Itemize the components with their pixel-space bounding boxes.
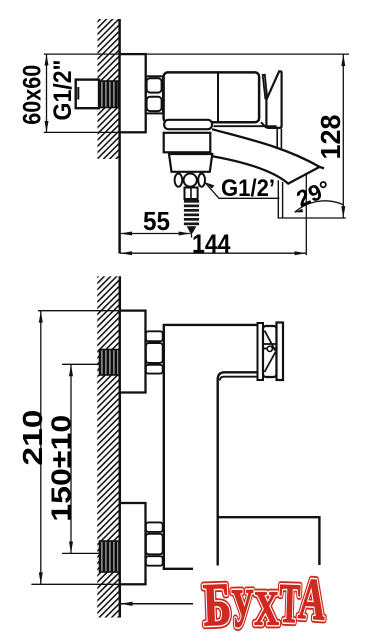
wall face line [118, 19, 121, 254]
svg-text:210: 210 [17, 410, 48, 466]
extension line top (y=54.1) [44, 53, 349, 55]
svg-text:У: У [231, 577, 255, 638]
threaded section upper inlet (plan) [100, 350, 120, 376]
wall (hatched) [97, 276, 120, 617]
svg-text:G1/2": G1/2" [49, 60, 77, 121]
watermark [202, 565, 328, 639]
barbed hose fitting [184, 200, 199, 233]
hex nuts (plan) [146, 331, 163, 565]
spout drop extension lines [277, 180, 279, 218]
handle tab [263, 75, 267, 99]
svg-text:Х: Х [254, 581, 279, 636]
escutcheon plate upper (plan) [120, 311, 146, 393]
shower outlet box [164, 133, 211, 153]
body (plan): wide box + leg [164, 325, 259, 569]
dim 210 [31, 311, 119, 585]
svg-text:А: А [297, 565, 329, 633]
handle (plan) [258, 323, 284, 381]
body step to handle [261, 122, 266, 128]
handle (side) [266, 71, 281, 128]
dim 144 [120, 251, 306, 255]
svg-text:55: 55 [143, 206, 170, 236]
svg-text:150±10: 150±10 [46, 415, 77, 522]
dim 55 [120, 227, 191, 238]
thread tick [77, 87, 79, 100]
svg-text:Б: Б [202, 571, 232, 639]
watermark backdrop [193, 566, 333, 640]
hose nut (side, round) [175, 174, 205, 187]
escutcheon plate lower (plan) [120, 503, 146, 584]
dim 150+-10 [62, 364, 100, 553]
threaded section in wall [99, 81, 119, 108]
faucet body (side) [164, 72, 260, 122]
flange under body [164, 120, 212, 129]
G1/2' leader [205, 182, 280, 198]
spout (side) [210, 129, 320, 183]
svg-text:60x60: 60x60 [19, 65, 47, 125]
29 deg annotation [295, 201, 344, 213]
vertical from spout tip [305, 175, 307, 255]
dim 128 [278, 54, 346, 218]
wall face line [119, 276, 122, 617]
svg-text:144: 144 [192, 229, 231, 259]
body divider [217, 74, 219, 122]
wall leader arrow [121, 602, 199, 606]
hex nut (side view) [146, 76, 163, 113]
supply pipe stub [76, 80, 99, 109]
svg-text:G1/2’: G1/2’ [221, 175, 275, 202]
dim 60x60 [45, 54, 49, 132]
svg-text:128: 128 [315, 115, 346, 160]
inner lip line [220, 377, 259, 381]
escutcheon plate 60x60 (side) [120, 54, 146, 132]
wall (hatched) [98, 19, 120, 159]
spout end box (plan) [218, 517, 320, 565]
collar trapezoid [169, 154, 212, 172]
threaded section lower inlet (plan) [100, 541, 120, 572]
hose nipple [185, 188, 198, 200]
handle support columns [276, 129, 278, 147]
body casting lower line [214, 125, 277, 127]
extension line bottom (y=132.4) [44, 131, 120, 133]
